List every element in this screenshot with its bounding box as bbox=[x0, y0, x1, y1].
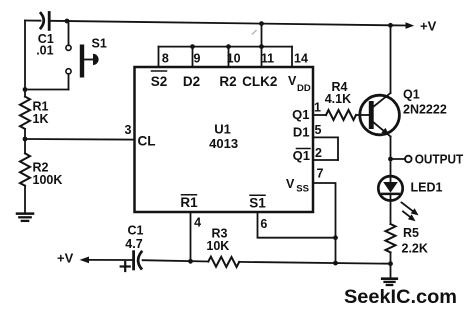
node junction bottom wire tee bbox=[333, 261, 338, 266]
pin numbers top bbox=[162, 52, 308, 66]
overline Q1-bar (right label) bbox=[297, 148, 311, 150]
svg-text:V: V bbox=[288, 74, 297, 88]
wire top supply rail left segment bbox=[25, 20, 41, 22]
svg-text:OUTPUT: OUTPUT bbox=[415, 153, 464, 167]
svg-text:DD: DD bbox=[297, 83, 311, 94]
wire pin 5 stub bbox=[313, 137, 338, 160]
wire pin 6 stub bbox=[258, 212, 336, 238]
node junction pin6 tee bbox=[333, 235, 338, 240]
svg-text:S1: S1 bbox=[249, 196, 266, 211]
wire top supply rail main bbox=[51, 21, 391, 26]
capacitor C1 .01 bbox=[36, 13, 54, 58]
svg-text:3: 3 bbox=[125, 123, 132, 137]
node junction bus pin9 bbox=[190, 44, 195, 49]
ground (left, below R2) bbox=[17, 214, 33, 221]
resistor R5 2.2K bbox=[386, 224, 428, 256]
resistor R1 1K bbox=[20, 97, 49, 129]
node junction bus pin10 bbox=[226, 44, 231, 49]
wire pin 8 stub bbox=[158, 47, 160, 67]
wire pin 11 stub / riser to +V rail bbox=[261, 24, 263, 67]
svg-text:SeekIC.com: SeekIC.com bbox=[344, 286, 457, 308]
svg-text:R5: R5 bbox=[403, 226, 419, 240]
wire output stub bbox=[391, 158, 406, 160]
svg-text:2.2K: 2.2K bbox=[402, 242, 428, 256]
+V supply arrow top right bbox=[391, 19, 437, 34]
svg-text:CLK2: CLK2 bbox=[242, 74, 277, 89]
wire R3 to right junctions bbox=[239, 262, 390, 264]
wire pin 4 stub bbox=[190, 212, 192, 261]
wire pin 2 stub bbox=[313, 159, 338, 161]
wire pin 9 stub bbox=[192, 47, 194, 67]
svg-text:Q1: Q1 bbox=[292, 107, 309, 122]
wire to ground right bbox=[390, 264, 392, 278]
node junction pin4 bottom bbox=[188, 259, 193, 264]
wire pin 14 stub bbox=[291, 47, 293, 67]
wire left rail top bbox=[24, 21, 26, 97]
node junction S1 return / R1 top bbox=[23, 87, 28, 92]
svg-text:+V: +V bbox=[57, 250, 74, 265]
svg-text:1K: 1K bbox=[33, 112, 49, 126]
svg-text:9: 9 bbox=[194, 52, 201, 66]
op-amp U1 4013 IC body bbox=[135, 67, 314, 212]
wire R4 to base bbox=[356, 114, 369, 116]
svg-text:2: 2 bbox=[315, 146, 322, 160]
svg-text:Q1: Q1 bbox=[293, 148, 310, 163]
LED1 bbox=[378, 159, 442, 224]
svg-text:+V: +V bbox=[420, 19, 437, 34]
wire top pin bus bbox=[159, 46, 293, 48]
node junction collector rail bbox=[388, 23, 393, 28]
svg-text:8: 8 bbox=[162, 52, 169, 66]
svg-text:6: 6 bbox=[260, 217, 267, 231]
svg-text:4.1K: 4.1K bbox=[325, 92, 351, 106]
svg-text:S2: S2 bbox=[151, 74, 168, 89]
svg-text:2N2222: 2N2222 bbox=[403, 103, 447, 117]
overline R1 (bottom label) bbox=[182, 194, 197, 196]
wire pin 10 stub bbox=[228, 47, 230, 67]
node OUTPUT terminal circle bbox=[405, 156, 412, 163]
wire between R1 and R2 bbox=[24, 129, 26, 154]
resistor R2 100K bbox=[20, 153, 62, 187]
switch S1 bbox=[25, 21, 107, 90]
wire R2 to ground bbox=[24, 186, 26, 213]
svg-text:.01: .01 bbox=[36, 43, 53, 57]
svg-text:4013: 4013 bbox=[209, 136, 238, 151]
svg-text:14: 14 bbox=[294, 52, 308, 66]
resistor R3 10K bbox=[206, 226, 239, 267]
svg-text:11: 11 bbox=[261, 52, 274, 66]
transistor Q1 2N2222 bbox=[360, 25, 447, 159]
svg-text:Q1: Q1 bbox=[403, 88, 420, 102]
svg-text:R2: R2 bbox=[219, 74, 236, 89]
node junction bus riser bbox=[259, 21, 264, 26]
scan artifact dash bbox=[253, 31, 257, 35]
overline S2 bbox=[152, 70, 167, 72]
svg-text:CL: CL bbox=[138, 134, 156, 149]
svg-text:10: 10 bbox=[227, 52, 241, 66]
node OUTPUT junction bbox=[388, 157, 393, 162]
node junction pin3 wire bbox=[23, 137, 28, 142]
node junction R5 bottom bbox=[388, 261, 393, 266]
svg-text:7: 7 bbox=[317, 167, 324, 181]
svg-text:1: 1 bbox=[314, 101, 321, 115]
svg-text:5: 5 bbox=[315, 123, 322, 137]
wire pin 3 to CL bbox=[25, 138, 135, 141]
wire pin 1 to R4 bbox=[313, 114, 326, 116]
svg-text:C1: C1 bbox=[128, 224, 144, 238]
wire cap to pin4 node bbox=[143, 260, 209, 261]
svg-text:S1: S1 bbox=[92, 36, 107, 50]
ground (right, bottom) bbox=[382, 279, 397, 285]
overline S1 (bottom label) bbox=[250, 194, 265, 196]
node junction C1/S1 bbox=[65, 19, 70, 24]
svg-text:10K: 10K bbox=[206, 239, 229, 253]
capacitor C1 4.7 bbox=[121, 224, 144, 272]
svg-text:SS: SS bbox=[296, 184, 309, 195]
svg-text:D2: D2 bbox=[183, 74, 200, 89]
svg-text:R1: R1 bbox=[180, 195, 198, 210]
svg-text:D1: D1 bbox=[293, 125, 310, 140]
svg-text:V: V bbox=[286, 177, 295, 191]
+V arrow bottom left bbox=[57, 250, 132, 265]
svg-text:100K: 100K bbox=[33, 173, 63, 187]
svg-text:4: 4 bbox=[194, 216, 201, 230]
svg-text:U1: U1 bbox=[214, 122, 231, 137]
node junction bus pin11 bbox=[259, 44, 264, 49]
svg-text:4.7: 4.7 bbox=[125, 237, 142, 251]
wire pin 7 stub bbox=[313, 183, 336, 263]
svg-text:LED1: LED1 bbox=[411, 180, 443, 194]
resistor R4 4.1K bbox=[325, 80, 356, 120]
wire R5 to bottom bbox=[390, 252, 392, 263]
